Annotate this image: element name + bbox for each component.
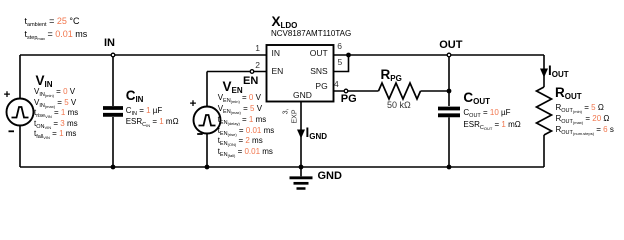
node label GND <box>318 170 342 182</box>
pin label PG <box>295 82 328 91</box>
arrow IGND <box>297 130 305 139</box>
wire left vertical (VIN branch) <box>19 55 21 167</box>
node IN open circle <box>111 53 115 57</box>
label RPG value <box>387 101 411 110</box>
wire pin5 SNS riser <box>334 55 349 72</box>
capacitor C2 COUT plates <box>438 109 460 116</box>
label ROUT steps <box>556 125 614 138</box>
capacitor C2 COUT wire lower <box>448 117 450 167</box>
label COUT value <box>463 108 510 121</box>
annotation t_ambient <box>25 17 80 30</box>
label VEN title <box>223 80 243 98</box>
pin number 5 <box>338 58 343 67</box>
label XLDO title <box>272 15 298 33</box>
label t_ON <box>34 119 78 132</box>
source VEN pulse glyph <box>199 115 216 126</box>
label ROUT max <box>556 114 610 127</box>
wire ROUT vertical upper <box>543 55 545 87</box>
node EN open circle <box>250 70 254 74</box>
wire VEN vertical upper <box>206 72 208 107</box>
junction COUT bottom <box>447 165 452 170</box>
label tEN fall <box>218 147 273 160</box>
source VIN minus sign <box>9 130 15 132</box>
label tEN ON <box>218 136 263 149</box>
ground symbol <box>300 167 302 176</box>
arrow IOUT <box>540 69 548 78</box>
pin label EN <box>272 67 284 76</box>
label COUT title <box>463 91 490 109</box>
wire pin6 OUT rail <box>334 54 545 56</box>
wire ROUT vertical lower <box>543 135 545 167</box>
wire VEN vertical lower <box>206 134 208 168</box>
label CIN title <box>126 89 144 107</box>
resistor R1 RPG zigzag <box>379 83 421 99</box>
source VIN pulse glyph <box>12 107 29 118</box>
label CIN value <box>126 106 163 119</box>
wire EN horizontal <box>207 71 267 73</box>
wire pin4 PG <box>334 90 379 92</box>
label CIN ESR <box>126 117 179 130</box>
source VIN plus sign <box>4 91 10 97</box>
label VEN min <box>218 93 261 106</box>
pin number 3 EXP rotated <box>281 108 290 114</box>
junction pin5-pin6 <box>346 53 351 58</box>
label tEN delay <box>218 115 267 128</box>
capacitor C1 wire upper <box>112 55 114 106</box>
op-amp U1 LDO box <box>267 45 334 102</box>
wire GND pin vertical <box>300 102 302 168</box>
junction RPG-COUT <box>447 89 452 94</box>
source VEN minus sign <box>197 133 203 135</box>
node label IN <box>104 37 115 49</box>
junction VEN bottom <box>205 165 210 170</box>
label t_fall <box>34 129 76 142</box>
node label OUT <box>439 39 462 51</box>
label VIN min <box>34 87 75 100</box>
label tEN rise <box>218 126 275 139</box>
wire RPG to COUT node <box>421 90 450 92</box>
node label PG <box>341 93 357 105</box>
label t_rise <box>34 108 78 121</box>
source VEN circle <box>194 107 221 134</box>
wire top IN rail <box>20 54 267 56</box>
capacitor C1 wire lower <box>112 117 114 167</box>
label RPG title <box>381 68 402 86</box>
pin number 1 <box>250 44 260 53</box>
pin number 2 <box>250 61 260 70</box>
label IOUT <box>548 64 569 82</box>
label ROUT min <box>556 103 604 116</box>
label ROUT title <box>555 86 582 104</box>
label COUT ESR <box>463 120 520 133</box>
pin label SNS <box>295 67 328 76</box>
node OUT open circle <box>447 53 451 57</box>
pin number 6 <box>337 42 342 51</box>
label VIN title <box>36 74 53 92</box>
junction CIN bottom <box>111 165 116 170</box>
annotation t_step_max <box>25 30 88 43</box>
capacitor C1 plates <box>103 108 123 115</box>
label VEN max <box>218 104 262 117</box>
node PG open circle <box>344 89 348 93</box>
pin label GND <box>293 91 312 100</box>
pin label OUT <box>295 49 328 58</box>
resistor R2 ROUT zigzag <box>537 87 552 135</box>
label part number <box>271 29 351 38</box>
node label EN <box>243 75 258 87</box>
label IGND <box>306 126 328 144</box>
junction GND bottom <box>299 165 304 170</box>
wire bottom ground rail <box>20 166 544 168</box>
capacitor C2 COUT wire upper <box>448 55 450 106</box>
source VIN circle <box>7 99 34 126</box>
pin number 4 <box>334 80 339 89</box>
label VIN max <box>34 98 76 111</box>
pin label IN <box>272 49 281 58</box>
source VEN plus sign <box>190 100 196 106</box>
